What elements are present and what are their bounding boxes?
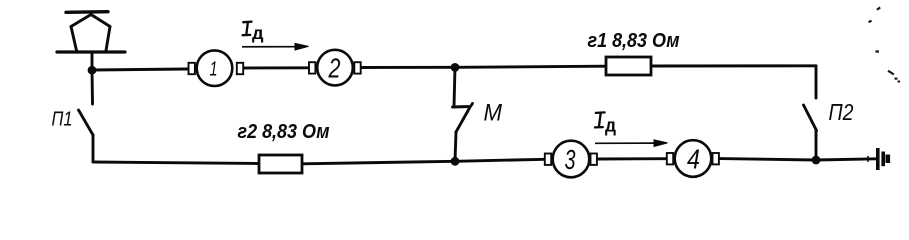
svg-text:г2 8,83 Ом: г2 8,83 Ом: [238, 121, 330, 143]
svg-text:д: д: [252, 23, 264, 43]
svg-text:П1: П1: [52, 109, 73, 131]
svg-text:4: 4: [687, 143, 700, 174]
svg-text:1: 1: [210, 58, 218, 80]
svg-text:3: 3: [565, 144, 576, 175]
svg-text:М: М: [484, 99, 503, 126]
svg-text:г1 8,83 Ом: г1 8,83 Ом: [588, 30, 680, 52]
svg-text:П2: П2: [829, 99, 854, 125]
svg-text:д: д: [605, 115, 616, 136]
svg-text:2: 2: [328, 53, 341, 84]
